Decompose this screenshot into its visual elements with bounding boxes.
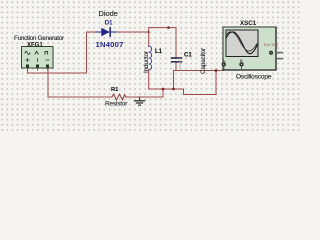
svg-text:C1: C1 xyxy=(184,53,192,59)
wire bottom rail right of resistor xyxy=(126,96,163,98)
stray grey mark near capacitor xyxy=(179,59,181,71)
junction dot at riser/horizontal 2 xyxy=(172,88,175,91)
svg-text:Resistor: Resistor xyxy=(105,100,127,107)
capacitor C1 xyxy=(172,58,182,62)
wire FG+ to diode anode (net 1) xyxy=(28,32,96,73)
svg-text:1N4007: 1N4007 xyxy=(96,40,124,49)
wire inductor top lead xyxy=(148,28,150,47)
wire capacitor bottom lead xyxy=(175,63,177,71)
wire inductor bottom lead xyxy=(149,70,216,95)
svg-text:L1: L1 xyxy=(155,49,163,55)
svg-text:B: B xyxy=(240,58,243,63)
svg-text:Inductor: Inductor xyxy=(143,51,150,73)
function generator XFG1 xyxy=(22,47,54,71)
diode D1 xyxy=(96,28,117,36)
svg-text:Oscilloscope: Oscilloscope xyxy=(236,74,272,81)
junction dot diode tee xyxy=(148,31,150,33)
resistor R1 xyxy=(112,94,126,100)
junction dot on scope A line xyxy=(215,69,218,72)
oscilloscope XSC1 xyxy=(222,27,283,70)
junction dot at riser/horizontal 1 xyxy=(162,88,165,91)
junction dot on top rail xyxy=(167,26,170,29)
ground xyxy=(135,97,145,105)
wire diode cathode to junction (net 2) xyxy=(117,31,149,33)
wire bottom-rail riser xyxy=(162,89,164,97)
svg-text:Diode: Diode xyxy=(99,9,118,18)
svg-text:A: A xyxy=(222,58,225,63)
svg-text:Function Generator: Function Generator xyxy=(14,35,65,42)
inductor L1 xyxy=(149,46,152,70)
wire capacitor bottom to scope A xyxy=(174,67,224,71)
svg-text:XFG1: XFG1 xyxy=(27,43,43,49)
svg-text:Capacitor: Capacitor xyxy=(200,48,207,74)
wire bottom rail left of resistor (from FG-) xyxy=(48,69,112,98)
svg-text:R1: R1 xyxy=(111,87,119,93)
svg-text:Ext Trig: Ext Trig xyxy=(264,42,278,47)
svg-text:XSC1: XSC1 xyxy=(240,20,257,27)
wire top rail to capacitor top xyxy=(149,28,176,58)
wire capacitor-bottom riser xyxy=(173,71,175,90)
svg-text:D1: D1 xyxy=(105,21,113,27)
